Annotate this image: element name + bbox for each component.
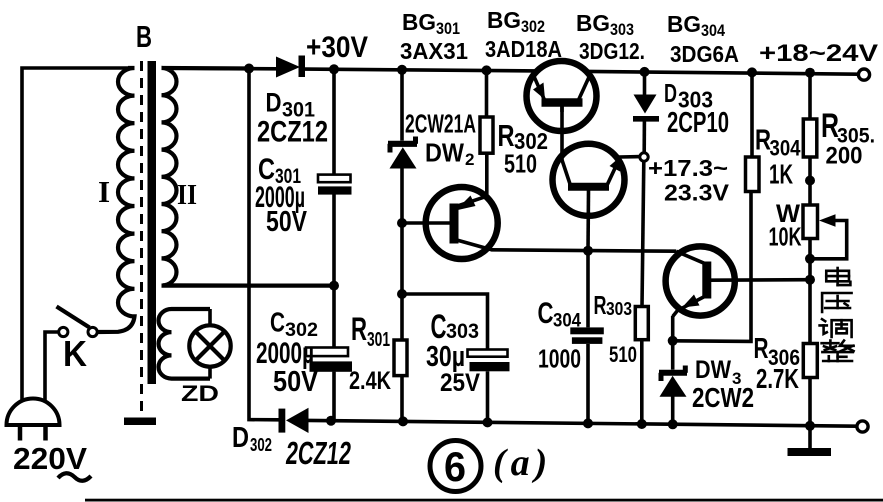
- wire R306 to bottom rail: [808, 378, 812, 426]
- transformer B primary winding I: [97, 68, 135, 332]
- ground symbol bottom right: [788, 448, 832, 456]
- zener DW3 triangle: [660, 376, 687, 397]
- wire R304 top to rail: [750, 72, 754, 157]
- svg-text:R: R: [594, 290, 607, 320]
- resistor R305: [803, 119, 817, 157]
- junction node: C301 top on +30V rail: [329, 64, 339, 74]
- junction node: R302 top on +30V rail: [482, 65, 492, 75]
- transistor BG303 collector lead: [562, 160, 570, 184]
- svg-text:2.4K: 2.4K: [349, 367, 391, 395]
- output terminal top right: [858, 69, 869, 80]
- switch K lever: [57, 307, 90, 328]
- svg-text:3DG12.: 3DG12.: [579, 38, 645, 64]
- svg-text:2CZ12: 2CZ12: [284, 435, 353, 471]
- wire top rail: secondary top to D301 anode: [163, 66, 276, 70]
- svg-text:50V: 50V: [266, 206, 308, 238]
- wire BG304 base to divider: [708, 278, 810, 282]
- junction node: BG303 base on collector bus: [583, 246, 593, 256]
- junction node: W bottom / wiper return: [805, 254, 815, 264]
- capacitor C303 plates: [468, 350, 508, 357]
- transistor BG301 base bar: [450, 204, 459, 244]
- svg-text:D: D: [266, 88, 282, 118]
- switch K contact circles: [59, 327, 68, 336]
- transistor BG304 emitter lead with arrow (NPN): [673, 296, 706, 317]
- wire collector bus BG301-BG303-BG304: [492, 250, 676, 251]
- mains plug body: [7, 399, 60, 425]
- tilde under 220V: [58, 473, 91, 481]
- diode D301: [276, 57, 300, 78]
- wire bottom rail D302 to right terminal: [308, 420, 857, 426]
- transistor BG303 base bar: [568, 183, 609, 191]
- figure number circle 6: [430, 441, 481, 492]
- resistor R302: [480, 117, 493, 153]
- resistor R306: [803, 344, 817, 378]
- wire switch to plug right prong: [45, 332, 59, 401]
- transistor BG303 emitter lead with arrow (NPN): [608, 158, 621, 185]
- svg-text:C: C: [270, 307, 285, 338]
- junction node: BG304 emitter / DW3 top: [668, 336, 678, 346]
- wire DW3 to bottom rail: [671, 397, 675, 425]
- svg-text:II: II: [177, 180, 197, 211]
- svg-text:200: 200: [826, 143, 863, 170]
- junction node: R301 bottom on ground rail: [398, 416, 408, 426]
- transistor BG302 collector lead: [579, 74, 591, 100]
- svg-text:2: 2: [465, 150, 474, 169]
- potentiometer W body: [803, 205, 818, 239]
- svg-text:DW: DW: [425, 138, 464, 168]
- svg-text:+18~24V: +18~24V: [759, 40, 878, 67]
- junction node: R301 top / C303 branch: [397, 289, 407, 299]
- svg-text:DW: DW: [695, 356, 731, 384]
- svg-text:25V: 25V: [440, 369, 480, 397]
- wire C301/C302 branch x=334: [332, 69, 336, 174]
- transformer core solid bar: [148, 61, 157, 384]
- wire D303 branch top: [643, 72, 647, 96]
- scan page edge line at bottom: [85, 499, 883, 502]
- wire secondary bottom to C302 top node: [163, 283, 334, 287]
- wire DW2 / R301 branch x=402: [400, 70, 404, 141]
- capacitor C304 plates: [570, 327, 604, 334]
- wire BG304 emitter node to R304 bottom: [673, 191, 751, 341]
- svg-text:R: R: [351, 311, 367, 347]
- zener DW2 bar with hooks: [388, 141, 417, 147]
- svg-text:304: 304: [701, 21, 725, 40]
- svg-text:3DG6A: 3DG6A: [670, 41, 739, 67]
- junction node: R304 top on output rail: [747, 67, 757, 77]
- junction node: DW2 / BG301 base: [397, 218, 407, 228]
- svg-text:301: 301: [436, 19, 460, 38]
- junction node: DW3 bottom on ground rail: [668, 419, 678, 429]
- transistor BG302 circle: [527, 61, 597, 131]
- lamp ZD leads: [208, 309, 212, 325]
- wire BG304 emitter down to DW3: [671, 316, 675, 370]
- junction node: C304 bottom on ground rail: [583, 418, 593, 428]
- svg-text:3AD18A: 3AD18A: [485, 36, 562, 62]
- transistor BG302 emitter lead with arrow (PNP): [533, 74, 545, 100]
- junction node: secondary top / rectifier branch: [244, 64, 254, 74]
- svg-text:303: 303: [446, 320, 479, 343]
- wire R302 to BG301 emitter: [485, 70, 489, 117]
- junction node: R305 top on output rail: [805, 68, 815, 78]
- resistor R303: [635, 307, 648, 340]
- svg-text:K: K: [63, 333, 87, 374]
- wire top rail: D301 cathode to BG302 emitter side: [305, 69, 538, 71]
- transistor BG304 circle: [666, 246, 735, 315]
- transformer core dashed lamination line: [140, 61, 143, 414]
- svg-text:2CW21A: 2CW21A: [405, 109, 476, 139]
- junction node: secondary bottom / C301-C302 midpoint: [329, 281, 339, 291]
- label ya (voltage adjust char 2): [822, 293, 851, 312]
- svg-text:220V: 220V: [13, 441, 87, 476]
- junction node: R305 bottom / W top: [805, 176, 815, 186]
- zener DW3 bar with hooks: [659, 370, 687, 376]
- lamp ZD circle with cross: [189, 325, 230, 366]
- diode D303: [634, 95, 657, 114]
- transistor BG301 circle: [426, 187, 498, 259]
- transistor BG304 base bar: [702, 262, 711, 299]
- label tiao (voltage adjust char 3): [820, 319, 852, 337]
- svg-text:BG: BG: [487, 7, 521, 33]
- svg-text:6: 6: [444, 443, 466, 490]
- svg-text:B: B: [136, 19, 152, 54]
- svg-text:3AX31: 3AX31: [400, 38, 468, 64]
- diode D302: [279, 409, 286, 433]
- capacitor C301 electrolytic plates: [318, 175, 351, 183]
- capacitor C302 electrolytic plates: [306, 348, 348, 357]
- svg-text:D: D: [232, 422, 249, 454]
- svg-text:BG: BG: [402, 9, 436, 35]
- wire BG303 emitter to +17.3V node: [619, 155, 641, 159]
- svg-text:302: 302: [250, 435, 272, 455]
- svg-text:2CZ12: 2CZ12: [257, 116, 328, 149]
- svg-text:301: 301: [367, 329, 390, 351]
- transistor BG301 emitter lead with arrow: [456, 196, 487, 206]
- wire pot wiper loop: [811, 221, 847, 259]
- potentiometer W wiper arrow: [819, 214, 836, 226]
- wire BG302 base to BG303 collector: [560, 106, 564, 161]
- wire C303 branch: [402, 294, 488, 350]
- svg-text:1000: 1000: [538, 344, 581, 374]
- transistor BG303 circle: [553, 144, 625, 216]
- svg-text:304: 304: [553, 311, 581, 332]
- mains plug prongs: [18, 427, 23, 441]
- svg-text:10K: 10K: [769, 222, 802, 252]
- svg-text:303: 303: [606, 299, 632, 319]
- junction node: R303 bottom on ground rail: [637, 419, 647, 429]
- svg-text:+30V: +30V: [306, 31, 368, 64]
- wire W pot to R306: [808, 239, 812, 344]
- wire R303 to bottom rail: [640, 340, 644, 425]
- ground of transformer core: [124, 418, 156, 426]
- svg-text:+17.3~: +17.3~: [648, 155, 728, 181]
- svg-text:BG: BG: [576, 10, 610, 36]
- junction node: D303 top on output rail: [640, 67, 650, 77]
- transistor BG304 collector lead: [676, 251, 706, 264]
- svg-text:2CW2: 2CW2: [692, 382, 754, 413]
- svg-text:2CP10: 2CP10: [667, 107, 729, 139]
- resistor R304: [746, 157, 760, 192]
- svg-text:50V: 50V: [273, 366, 319, 398]
- wire ground stub bottom right: [808, 426, 812, 448]
- svg-text:BG: BG: [667, 11, 701, 37]
- svg-text:C: C: [538, 297, 554, 330]
- transistor BG301 collector lead: [455, 240, 493, 251]
- svg-text:510: 510: [504, 149, 537, 179]
- wire C304 branch: [586, 251, 590, 328]
- junction node: C303 bottom on ground rail: [483, 417, 493, 427]
- output terminal bottom right: [857, 421, 868, 432]
- svg-text:(a): (a): [493, 442, 552, 484]
- transistor BG302 base bar: [542, 98, 583, 107]
- wire left rectifier branch x=249 down to D302: [249, 69, 279, 420]
- wire BG301 base: [402, 221, 450, 225]
- resistor R301: [394, 340, 407, 376]
- wire top rail: BG302 collector side to +18-24V terminal: [587, 71, 858, 74]
- wire top-left from mains to primary: [22, 68, 128, 401]
- junction node: BG304 base wire / divider: [805, 275, 815, 285]
- +17.3V probe node: [640, 153, 648, 161]
- tertiary winding for ZD lamp: [159, 309, 211, 379]
- wire BG303 base lead: [586, 191, 590, 251]
- SECTION: wires: [22, 68, 858, 448]
- svg-text:D: D: [664, 78, 677, 108]
- svg-text:23.3V: 23.3V: [664, 180, 730, 206]
- transistor BG302 base lead stub: [560, 106, 564, 112]
- svg-text:303: 303: [610, 20, 634, 39]
- svg-text:R: R: [754, 333, 769, 365]
- svg-text:304: 304: [770, 136, 802, 161]
- wire R305 branch: [808, 73, 812, 118]
- svg-text:2.7K: 2.7K: [756, 363, 799, 394]
- svg-text:510: 510: [609, 342, 637, 367]
- label dian (voltage adjust char 1): [826, 268, 850, 285]
- junction node: D302 anode on ground rail: [326, 416, 336, 426]
- transformer B secondary winding II: [162, 68, 335, 286]
- SECTION: components: [7, 56, 870, 457]
- wire +17.3 node to R303: [642, 161, 644, 306]
- zener DW2 triangle: [390, 147, 417, 168]
- svg-text:1K: 1K: [769, 159, 793, 190]
- svg-text:302: 302: [521, 17, 545, 36]
- svg-text:ZD: ZD: [181, 381, 219, 406]
- junction node: DW2 top on +30V rail: [397, 65, 407, 75]
- label zheng (voltage adjust char 4): [822, 341, 854, 361]
- svg-text:I: I: [98, 174, 110, 209]
- junction node: R306 bottom / ground stub: [805, 421, 815, 431]
